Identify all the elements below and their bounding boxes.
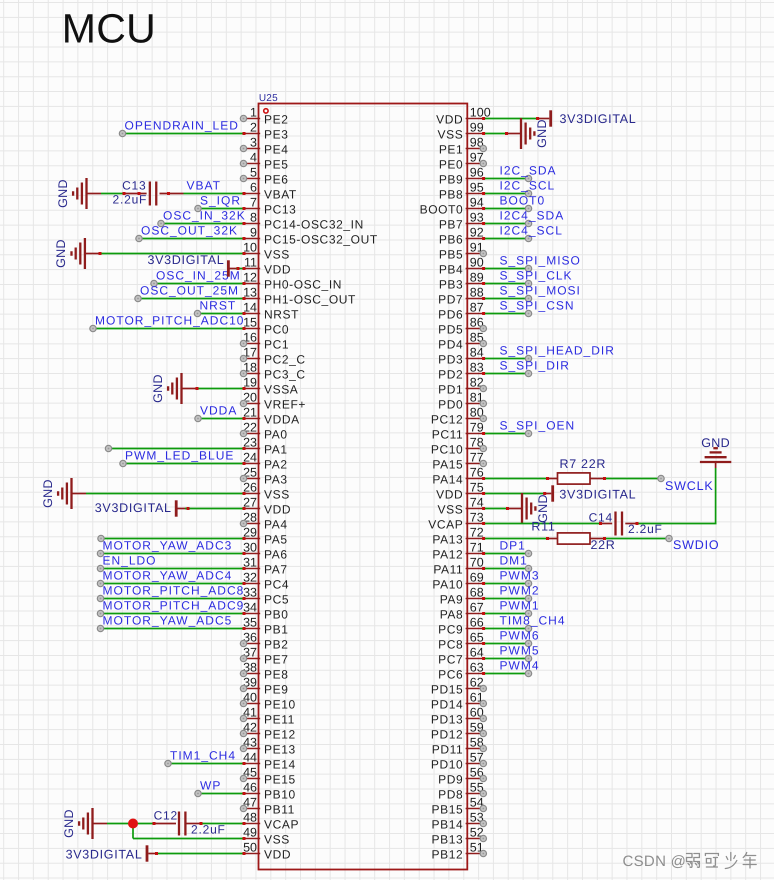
- svg-text:PD9: PD9: [438, 773, 463, 787]
- svg-text:VCAP: VCAP: [428, 518, 463, 532]
- svg-text:CSDN @: CSDN @: [623, 853, 687, 870]
- svg-text:NRST: NRST: [264, 308, 299, 322]
- svg-text:PA14: PA14: [432, 473, 463, 487]
- svg-text:PC5: PC5: [264, 593, 289, 607]
- svg-text:PC13: PC13: [264, 203, 296, 217]
- svg-text:89: 89: [470, 271, 484, 285]
- svg-text:PWM3: PWM3: [500, 568, 540, 582]
- svg-text:S_SPI_MISO: S_SPI_MISO: [500, 253, 581, 267]
- svg-text:DP1: DP1: [500, 538, 526, 552]
- svg-text:PD0: PD0: [438, 398, 463, 412]
- svg-text:VCAP: VCAP: [264, 818, 299, 832]
- svg-text:OSC_OUT_25M: OSC_OUT_25M: [140, 283, 239, 297]
- svg-text:PWM4: PWM4: [500, 658, 540, 672]
- svg-text:67: 67: [470, 601, 484, 615]
- svg-text:66: 66: [470, 616, 484, 630]
- svg-text:PB13: PB13: [432, 833, 464, 847]
- svg-text:PE12: PE12: [264, 728, 296, 742]
- svg-text:PE14: PE14: [264, 758, 296, 772]
- svg-text:VDD: VDD: [264, 848, 291, 862]
- svg-text:PE13: PE13: [264, 743, 296, 757]
- svg-text:3V3DIGITAL: 3V3DIGITAL: [95, 501, 172, 515]
- svg-text:PA8: PA8: [440, 608, 464, 622]
- svg-text:PC3_C: PC3_C: [264, 368, 306, 382]
- svg-text:GND: GND: [535, 119, 549, 148]
- svg-text:S_IQR: S_IQR: [200, 193, 241, 207]
- svg-text:PB12: PB12: [432, 848, 464, 862]
- svg-text:PC11: PC11: [432, 428, 464, 442]
- svg-text:PA4: PA4: [264, 518, 288, 532]
- svg-text:73: 73: [470, 511, 484, 525]
- svg-text:NRST: NRST: [200, 298, 237, 312]
- svg-text:TIM8_CH4: TIM8_CH4: [500, 613, 566, 627]
- svg-text:PE15: PE15: [264, 773, 296, 787]
- svg-text:PA10: PA10: [432, 578, 463, 592]
- svg-text:I2C_SDA: I2C_SDA: [500, 163, 557, 177]
- svg-text:2.2uF: 2.2uF: [113, 193, 148, 207]
- svg-text:93: 93: [470, 211, 484, 225]
- svg-text:VBAT: VBAT: [264, 188, 297, 202]
- svg-text:PE3: PE3: [264, 128, 288, 142]
- svg-text:74: 74: [470, 496, 484, 510]
- svg-text:PB7: PB7: [439, 218, 463, 232]
- svg-text:S_SPI_CSN: S_SPI_CSN: [500, 298, 575, 312]
- svg-text:PC14-OSC32_IN: PC14-OSC32_IN: [264, 218, 364, 232]
- svg-text:PWM1: PWM1: [500, 598, 540, 612]
- svg-text:GND: GND: [151, 374, 165, 403]
- svg-text:PE1: PE1: [439, 143, 463, 157]
- svg-text:PB4: PB4: [439, 263, 463, 277]
- svg-text:PE9: PE9: [264, 683, 288, 697]
- svg-text:GND: GND: [54, 239, 68, 268]
- svg-text:PD5: PD5: [438, 323, 463, 337]
- svg-text:PA1: PA1: [264, 443, 288, 457]
- svg-text:DM1: DM1: [500, 553, 528, 567]
- svg-text:GND: GND: [41, 479, 55, 508]
- svg-text:3V3DIGITAL: 3V3DIGITAL: [66, 848, 143, 862]
- svg-text:PC6: PC6: [438, 668, 463, 682]
- svg-text:PD10: PD10: [431, 758, 463, 772]
- svg-text:VDDA: VDDA: [200, 403, 237, 417]
- svg-text:PB11: PB11: [264, 803, 295, 817]
- svg-text:PE4: PE4: [264, 143, 288, 157]
- svg-text:PE0: PE0: [439, 158, 463, 172]
- svg-text:84: 84: [470, 346, 484, 360]
- svg-text:75: 75: [470, 481, 484, 495]
- svg-text:PB3: PB3: [439, 278, 463, 292]
- svg-text:I2C4_SDA: I2C4_SDA: [500, 208, 565, 222]
- svg-text:PWM6: PWM6: [500, 628, 540, 642]
- svg-text:96: 96: [470, 166, 484, 180]
- svg-text:PD11: PD11: [432, 743, 464, 757]
- svg-text:7: 7: [250, 196, 257, 210]
- svg-text:TIM1_CH4: TIM1_CH4: [170, 748, 236, 762]
- svg-text:PD4: PD4: [438, 338, 463, 352]
- svg-text:VREF+: VREF+: [264, 398, 306, 412]
- svg-text:I2C_SCL: I2C_SCL: [500, 178, 556, 192]
- svg-text:64: 64: [470, 646, 484, 660]
- svg-text:R11: R11: [531, 520, 555, 534]
- svg-text:PWM2: PWM2: [500, 583, 540, 597]
- svg-text:76: 76: [470, 466, 484, 480]
- svg-text:PE11: PE11: [264, 713, 295, 727]
- svg-text:PE7: PE7: [264, 653, 288, 667]
- svg-text:PD8: PD8: [438, 788, 463, 802]
- svg-text:PD1: PD1: [438, 383, 463, 397]
- svg-text:PA5: PA5: [264, 533, 288, 547]
- svg-text:2.2uF: 2.2uF: [191, 823, 226, 837]
- svg-text:PD15: PD15: [431, 683, 463, 697]
- svg-text:PA7: PA7: [264, 563, 288, 577]
- svg-text:PB6: PB6: [439, 233, 463, 247]
- svg-text:VSS: VSS: [264, 248, 290, 262]
- svg-text:VDD: VDD: [264, 263, 291, 277]
- svg-text:PWM5: PWM5: [500, 643, 540, 657]
- svg-text:PC8: PC8: [438, 638, 463, 652]
- svg-text:GND: GND: [701, 436, 730, 450]
- svg-text:SWCLK: SWCLK: [665, 479, 713, 493]
- svg-text:PE10: PE10: [264, 698, 296, 712]
- svg-text:PE8: PE8: [264, 668, 288, 682]
- svg-text:PE2: PE2: [264, 113, 288, 127]
- svg-text:99: 99: [470, 121, 484, 135]
- svg-text:PA12: PA12: [432, 548, 463, 562]
- svg-text:3: 3: [250, 136, 257, 150]
- svg-text:PE5: PE5: [264, 158, 288, 172]
- svg-text:MOTOR_YAW_ADC3: MOTOR_YAW_ADC3: [103, 538, 233, 552]
- svg-text:MOTOR_PITCH_ADC8: MOTOR_PITCH_ADC8: [103, 583, 245, 597]
- svg-text:GND: GND: [62, 809, 76, 838]
- svg-text:PE6: PE6: [264, 173, 288, 187]
- svg-text:65: 65: [470, 631, 484, 645]
- svg-text:PB15: PB15: [432, 803, 464, 817]
- svg-text:4: 4: [250, 151, 257, 165]
- svg-text:68: 68: [470, 586, 484, 600]
- svg-text:PD14: PD14: [431, 698, 463, 712]
- svg-text:PC4: PC4: [264, 578, 289, 592]
- svg-text:PB10: PB10: [264, 788, 296, 802]
- svg-text:22R: 22R: [591, 538, 616, 552]
- svg-text:VSS: VSS: [264, 833, 290, 847]
- svg-text:OSC_IN_32K: OSC_IN_32K: [163, 208, 246, 222]
- svg-text:94: 94: [470, 196, 484, 210]
- svg-text:S_SPI_MOSI: S_SPI_MOSI: [500, 283, 581, 297]
- svg-text:PC9: PC9: [438, 623, 463, 637]
- svg-text:PD7: PD7: [438, 293, 463, 307]
- svg-text:72: 72: [470, 526, 484, 540]
- svg-text:S_SPI_DIR: S_SPI_DIR: [500, 358, 570, 372]
- svg-text:PWM_LED_BLUE: PWM_LED_BLUE: [125, 448, 234, 462]
- svg-text:I2C4_SCL: I2C4_SCL: [500, 223, 563, 237]
- svg-text:S_SPI_CLK: S_SPI_CLK: [500, 268, 573, 282]
- svg-text:PD6: PD6: [438, 308, 463, 322]
- svg-text:PB0: PB0: [264, 608, 288, 622]
- svg-text:87: 87: [470, 301, 484, 315]
- svg-text:SWDIO: SWDIO: [673, 538, 719, 552]
- svg-text:VBAT: VBAT: [187, 178, 221, 192]
- svg-text:79: 79: [470, 421, 484, 435]
- svg-text:PB2: PB2: [264, 638, 288, 652]
- svg-text:MOTOR_PITCH_ADC10: MOTOR_PITCH_ADC10: [95, 313, 244, 327]
- svg-text:92: 92: [470, 226, 484, 240]
- svg-text:S_SPI_HEAD_DIR: S_SPI_HEAD_DIR: [500, 343, 615, 357]
- svg-text:2: 2: [250, 121, 257, 135]
- svg-text:3V3DIGITAL: 3V3DIGITAL: [147, 253, 224, 267]
- svg-text:11: 11: [244, 256, 257, 270]
- svg-text:MCU: MCU: [62, 6, 156, 52]
- svg-text:C13: C13: [122, 178, 146, 192]
- svg-text:PC2_C: PC2_C: [264, 353, 306, 367]
- svg-text:8: 8: [250, 211, 257, 225]
- svg-text:PH1-OSC_OUT: PH1-OSC_OUT: [264, 293, 356, 307]
- svg-text:PC12: PC12: [431, 413, 463, 427]
- svg-text:WP: WP: [200, 778, 221, 792]
- svg-text:PB5: PB5: [439, 248, 463, 262]
- svg-text:PC7: PC7: [438, 653, 463, 667]
- svg-text:VDDA: VDDA: [264, 413, 300, 427]
- svg-text:71: 71: [470, 541, 484, 555]
- svg-text:88: 88: [470, 286, 484, 300]
- svg-text:VSS: VSS: [437, 503, 463, 517]
- svg-text:PA9: PA9: [440, 593, 464, 607]
- svg-text:OSC_OUT_32K: OSC_OUT_32K: [141, 223, 238, 237]
- svg-text:100: 100: [470, 106, 491, 120]
- svg-text:C12: C12: [154, 808, 178, 822]
- svg-text:VDD: VDD: [264, 503, 291, 517]
- svg-text:PA15: PA15: [432, 458, 463, 472]
- svg-text:PA3: PA3: [264, 473, 288, 487]
- svg-text:PC10: PC10: [431, 443, 463, 457]
- svg-text:VSSA: VSSA: [264, 383, 298, 397]
- svg-text:95: 95: [470, 181, 484, 195]
- svg-text:S_SPI_OEN: S_SPI_OEN: [500, 418, 576, 432]
- svg-text:PB1: PB1: [264, 623, 288, 637]
- svg-text:5: 5: [250, 166, 257, 180]
- svg-text:U25: U25: [259, 93, 278, 104]
- svg-text:VSS: VSS: [437, 128, 463, 142]
- svg-text:PA11: PA11: [433, 563, 463, 577]
- svg-text:83: 83: [470, 361, 484, 375]
- svg-text:3V3DIGITAL: 3V3DIGITAL: [560, 112, 637, 126]
- svg-text:PB9: PB9: [439, 173, 463, 187]
- svg-text:63: 63: [470, 661, 484, 675]
- svg-text:PD13: PD13: [431, 713, 463, 727]
- svg-text:MOTOR_YAW_ADC4: MOTOR_YAW_ADC4: [103, 568, 233, 582]
- svg-text:69: 69: [470, 571, 484, 585]
- svg-text:PA6: PA6: [264, 548, 288, 562]
- svg-text:PB8: PB8: [439, 188, 463, 202]
- svg-text:C14: C14: [589, 510, 613, 524]
- svg-text:2.2uF: 2.2uF: [628, 522, 663, 536]
- svg-text:6: 6: [250, 181, 257, 195]
- svg-text:1: 1: [250, 106, 257, 120]
- svg-text:BOOT0: BOOT0: [420, 203, 464, 217]
- svg-text:R7 22R: R7 22R: [560, 457, 607, 471]
- svg-text:PH0-OSC_IN: PH0-OSC_IN: [264, 278, 342, 292]
- svg-text:PA0: PA0: [264, 428, 288, 442]
- svg-text:VDD: VDD: [436, 488, 463, 502]
- svg-text:3V3DIGITAL: 3V3DIGITAL: [559, 488, 636, 502]
- svg-text:70: 70: [470, 556, 484, 570]
- svg-text:MOTOR_YAW_ADC5: MOTOR_YAW_ADC5: [103, 613, 233, 627]
- svg-text:EN_LDO: EN_LDO: [103, 553, 157, 567]
- svg-text:GND: GND: [56, 179, 70, 208]
- svg-text:9: 9: [250, 226, 257, 240]
- svg-text:PB14: PB14: [432, 818, 464, 832]
- svg-text:VDD: VDD: [436, 113, 463, 127]
- svg-text:OPENDRAIN_LED: OPENDRAIN_LED: [125, 118, 239, 132]
- svg-text:BOOT0: BOOT0: [500, 193, 546, 207]
- svg-text:PA2: PA2: [264, 458, 288, 472]
- svg-text:VSS: VSS: [264, 488, 290, 502]
- svg-text:PC15-OSC32_OUT: PC15-OSC32_OUT: [264, 233, 378, 247]
- svg-text:MOTOR_PITCH_ADC9: MOTOR_PITCH_ADC9: [103, 598, 245, 612]
- svg-text:PD3: PD3: [438, 353, 463, 367]
- svg-text:PC0: PC0: [264, 323, 289, 337]
- svg-text:PA13: PA13: [432, 533, 463, 547]
- svg-text:PD2: PD2: [438, 368, 463, 382]
- svg-text:PC1: PC1: [264, 338, 289, 352]
- svg-text:PD12: PD12: [431, 728, 463, 742]
- svg-text:90: 90: [470, 256, 484, 270]
